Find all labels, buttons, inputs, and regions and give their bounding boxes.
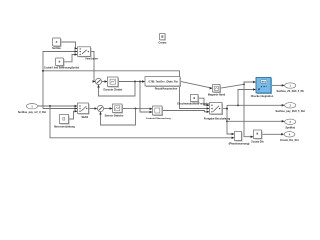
block A (source, top-left)	[52, 38, 61, 50]
svg-text:Wahl2: Wahl2	[81, 117, 88, 119]
svg-text:Messverstärkung: Messverstärkung	[54, 125, 75, 128]
outport oval O1	[277, 83, 305, 93]
circle C2 (merge)	[97, 105, 103, 111]
block B2 (Sensor-Switche)	[105, 104, 124, 118]
svg-text:SenSou_ZZ_ZH3_5_PA: SenSou_ZZ_ZH3_5_PA	[277, 90, 305, 93]
wire net to outport O2	[227, 104, 284, 106]
outport oval O2	[276, 103, 305, 113]
node junction O2 line to blue in2	[237, 104, 239, 106]
svg-text:Ersatz_Dis_Rst: Ersatz_Dis_Rst	[280, 139, 298, 142]
wire block DREH output to switch SW3 input 3	[162, 111, 209, 112]
node junction x244	[243, 83, 245, 85]
wire block GESCHW output to switch SW3 input 1	[198, 98, 209, 105]
svg-text:Couldn't find SeMessungSynVal: Couldn't find SeMessungSynVal	[44, 67, 79, 70]
block PFAND	[229, 132, 250, 146]
wire feedback U1 into circle C1 bottom	[99, 82, 136, 97]
block MESS (Messverstaerkung constant)	[54, 115, 75, 129]
wire block MESS output to switch SW2 input 3	[69, 111, 77, 119]
arrowheads	[75, 47, 285, 139]
svg-text:Umschalter: Umschalter	[85, 58, 98, 61]
switch SW1	[78, 47, 98, 61]
svg-text:./ 1789_TestOn+_/Otaln_Rst: ./ 1789_TestOn+_/Otaln_Rst	[147, 81, 178, 84]
switch SW3 (multiport)	[204, 103, 231, 121]
switch SW2	[78, 103, 90, 119]
wire switch SW1 output to circle C1	[91, 52, 96, 82]
wire from block A to switch SW1 input 1	[61, 42, 77, 49]
wire feedback U2 into circle C2 bottom	[101, 109, 136, 126]
svg-text:g sw t: g sw t	[261, 85, 267, 88]
block ZUS (Zusatz)	[251, 130, 264, 144]
wire branch to outport O3	[227, 120, 284, 122]
wire net x227 vertical	[227, 105, 232, 134]
block EXE (Execute Chatter)	[103, 77, 122, 91]
wire block MAG output to node x244	[220, 84, 244, 88]
svg-text:GeschwindichkeitFreigabe: GeschwindichkeitFreigabe	[177, 103, 209, 106]
wire node x244 down to block ZUS input	[244, 84, 253, 136]
wire branch down to DREH input 2	[140, 82, 152, 113]
svg-text:Checke integration: Checke integration	[251, 95, 274, 98]
svg-text:Magnete-Hand: Magnete-Hand	[208, 93, 226, 96]
node junction net x227 at O3 branch	[226, 120, 228, 122]
wire block C to switch SW1 input 3	[64, 55, 77, 62]
wire block B2 output to DREH input 1	[122, 108, 152, 110]
wire block ZUS output to outport O4	[262, 133, 284, 135]
node junction chain2 feedback	[135, 108, 137, 110]
node junction inport branch	[49, 105, 51, 107]
svg-text:SenVko: SenVko	[52, 47, 61, 50]
wire control net branch y=70.8 down x=179.5 to switch SW3 input 2	[43, 71, 209, 109]
wire inport oval I1 to switch SW2 input 1	[38, 105, 77, 107]
svg-text:SenSou_pay_ref_U_Rst: SenSou_pay_ref_U_Rst	[18, 111, 46, 114]
wire circle C2 to block B2	[104, 108, 112, 110]
outport oval O3	[285, 119, 296, 129]
svg-text:Sensor-Switche: Sensor-Switche	[105, 115, 124, 118]
wire blue block output to outport O1	[271, 84, 284, 86]
wire subsystem D output to block MAG	[180, 81, 212, 88]
circle C1 (merge)	[95, 78, 101, 84]
svg-text:Drehzahl-Überwachung: Drehzahl-Überwachung	[146, 117, 171, 120]
subsystem D (wide block)	[145, 77, 181, 91]
blue block (Checke Integration subsystem)	[251, 78, 274, 99]
svg-text:(Pfandsteuerung): (Pfandsteuerung)	[229, 143, 250, 146]
wire inport branch down to PFAND input 2	[50, 106, 232, 138]
node junction net x227 at output	[226, 108, 228, 110]
wire node x244 up to blue block input 1	[244, 82, 255, 84]
block DREH	[146, 106, 171, 120]
svg-text:Freigabe-Beschaltung: Freigabe-Beschaltung	[204, 118, 231, 121]
wire circle C1 to block EXE	[102, 81, 107, 83]
wire switch SW3 output net	[222, 108, 227, 110]
block GESCHW (constant)	[177, 95, 209, 106]
wire control net to switch SW2 input 2	[43, 108, 77, 110]
node junction chain1 feedback	[134, 81, 136, 83]
svg-text:NTG: NTG	[262, 82, 267, 84]
wire branch up to blue block input 2	[238, 90, 255, 106]
inport oval I1	[18, 104, 46, 115]
block C (inner source)	[44, 58, 79, 70]
block MAG (Magnete-Hand)	[208, 85, 226, 97]
block CREATE (isolated, top middle)	[158, 34, 167, 45]
wire switch SW2 output to circle C2	[89, 108, 97, 110]
svg-text:Execute Chatter: Execute Chatter	[103, 88, 122, 91]
node junction chain1 branch to DREH	[139, 81, 141, 83]
svg-text:Zusatz-Dis: Zusatz-Dis	[251, 141, 264, 144]
svg-text:RecyklAnsprachen: RecyklAnsprachen	[155, 88, 178, 91]
svg-text:Create: Create	[158, 40, 167, 44]
svg-text:SenSou_pay_ZH3_5_Rst: SenSou_pay_ZH3_5_Rst	[276, 110, 305, 113]
outport oval O4	[280, 132, 298, 143]
svg-text:SynMod: SynMod	[285, 126, 295, 129]
node control net junction	[42, 70, 44, 72]
wire block EXE to subsystem D	[118, 81, 144, 83]
wire control net vertical x=43	[43, 52, 77, 109]
